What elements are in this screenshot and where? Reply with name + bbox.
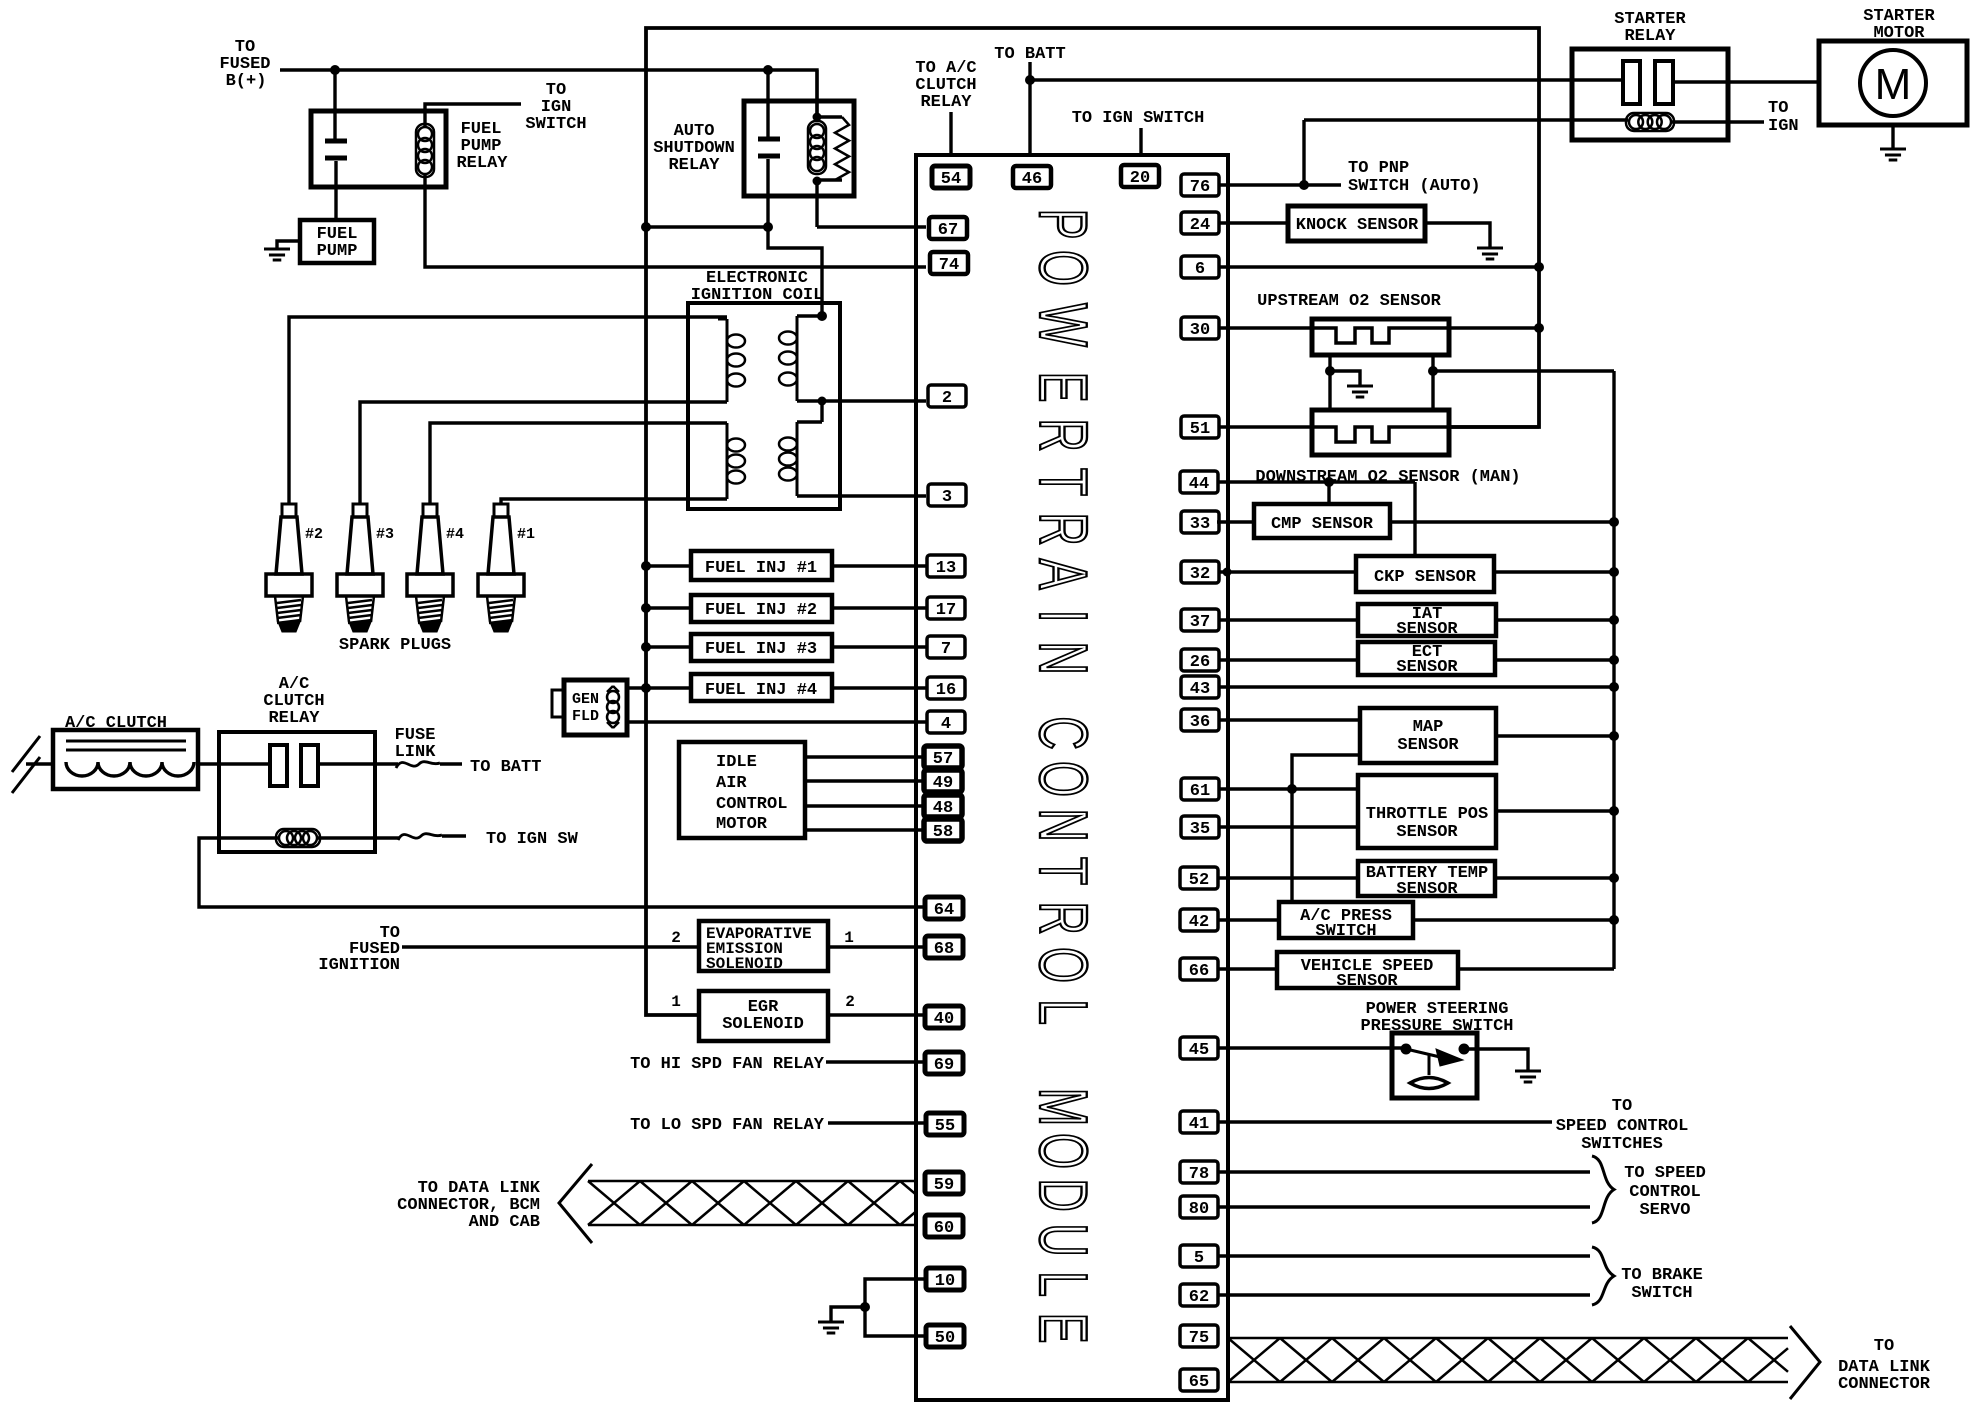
wire ASD loop to FUEL INJ #4 [646,686,691,689]
svg-text:SWITCH: SWITCH [1631,1284,1692,1303]
svg-text:M: M [1025,1088,1101,1127]
label VEHICLE SPEED SENSOR [1301,957,1434,991]
label IDLE AIR CONTROL MOTOR [716,753,787,834]
wire ignition coil to pin 3 [797,494,926,497]
svg-text:40: 40 [934,1010,954,1029]
label IAT SENSOR [1396,605,1458,639]
pin 48 [924,795,962,818]
wire ASD loop to FUEL INJ #3 [646,645,691,648]
svg-text:64: 64 [934,901,954,920]
pin 17 [927,597,965,620]
svg-text:20: 20 [1130,169,1150,188]
pin 57 [924,746,962,769]
junction loop/pin6 wire [1534,262,1544,272]
svg-text:FLD: FLD [572,708,599,725]
label TO A/C CLUTCH RELAY [915,59,976,112]
junction bus/pin43 [1609,682,1619,692]
wire pin 5 to brake switch [1218,1254,1590,1257]
wire TO BATT to pin 46 [1028,62,1031,155]
wire to hi spd fan relay [826,1060,926,1063]
label TO FUSED IGNITION [318,924,400,975]
svg-text:TO HI SPD FAN RELAY: TO HI SPD FAN RELAY [630,1055,825,1074]
label ELECTRONIC IGNITION COIL [691,269,824,305]
junction ASD coil/resistor bottom [813,177,822,186]
wire coil to spark plug #4 [430,423,727,504]
junction O2 ground [1325,366,1335,376]
svg-text:6: 6 [1195,260,1205,279]
svg-text:L: L [1025,999,1101,1025]
pin 52 [1180,867,1218,890]
svg-text:61: 61 [1190,782,1210,801]
label BATTERY TEMP SENSOR [1366,864,1488,899]
starter motor circle [1860,50,1926,116]
ground at starter motor [1880,149,1906,160]
pin 44 [1180,471,1218,494]
label TO BRAKE SWITCH [1621,1266,1703,1303]
wire pin 76 to PNP switch [1218,183,1341,186]
pin 5 [1180,1245,1218,1268]
svg-text:42: 42 [1189,913,1209,932]
wire fuse link to batt [440,762,462,765]
junction ASD-loop/ASD-relay [641,222,651,232]
junction O2 signal [1428,366,1438,376]
svg-text:TO BATT: TO BATT [470,758,541,777]
pin 74 [930,252,968,275]
PCM powertrain control module box [916,155,1228,1400]
label FUSE LINK [395,726,437,762]
svg-text:N: N [1025,808,1101,841]
wire evap solenoid to pin 68 [828,945,926,948]
svg-text:7: 7 [941,640,951,659]
svg-text:10: 10 [935,1272,955,1291]
pin 75 [1180,1325,1218,1348]
label STARTER MOTOR [1863,7,1935,43]
svg-text:AIR: AIR [716,774,747,793]
svg-text:60: 60 [934,1219,954,1238]
wire pin 61 to TPS [1218,787,1358,790]
svg-text:SENSOR: SENSOR [1397,736,1459,755]
wire ASD loop to FUEL INJ #1 [646,564,691,567]
svg-text:51: 51 [1190,420,1210,439]
svg-text:LINK: LINK [395,743,437,762]
svg-text:26: 26 [1190,653,1210,672]
svg-text:FUEL INJ #4: FUEL INJ #4 [705,681,817,700]
wire pin 45 to PS switch [1219,1046,1404,1049]
svg-text:MAP: MAP [1413,718,1444,737]
fuse link squiggle 1 [396,762,440,768]
svg-text:T: T [1025,857,1101,885]
svg-text:R: R [1025,512,1101,545]
A/C clutch box [53,730,198,789]
spark plug #1 [478,504,535,632]
wire secondary1 top to primary feed [797,314,822,317]
svg-text:C: C [1025,716,1101,749]
pin 24 [1181,212,1219,235]
pin 43 [1181,676,1219,699]
junction bus/CKP [1609,567,1619,577]
wire pin 78 to speed control servo [1218,1170,1590,1173]
ground at fuel pump [264,249,290,260]
pin 68 [925,936,963,959]
pin 42 [1180,909,1218,932]
wire EGR solenoid to pin 40 [828,1013,926,1016]
EGR solenoid box [699,991,828,1041]
svg-text:CKP SENSOR: CKP SENSOR [1374,568,1477,587]
label TO IGN SWITCH (fuel pump relay) [525,81,586,134]
pin 54 [932,166,970,189]
electronic ignition coil box [688,303,840,509]
svg-text:24: 24 [1190,216,1210,235]
svg-text:PUMP: PUMP [317,242,358,261]
label MAP SENSOR [1397,718,1459,755]
starter relay contacts [1623,61,1640,104]
svg-text:D: D [1025,1178,1101,1211]
svg-text:52: 52 [1189,871,1209,890]
downstream O2 sensor box [1312,410,1449,455]
wire ASD output loop (left vertical x646, top y28, right vertical x1539) [646,28,1539,1015]
evaporative emission solenoid box [699,921,828,971]
svg-text:78: 78 [1189,1165,1209,1184]
wire FUEL INJ #1 to pin 13 [832,564,926,567]
wire pin 30 to upstream O2 [1218,326,1312,329]
wire TPS to sensor bus [1496,809,1614,812]
label TO DATA LINK CONNECTOR BCM AND CAB [397,1179,541,1232]
svg-text:O: O [1025,761,1101,797]
wire MAP 5V supply leg [1292,755,1360,902]
ground at knock sensor [1477,248,1503,259]
throttle position sensor box [1358,775,1496,848]
pin 6 [1181,256,1219,279]
svg-text:UPSTREAM O2 SENSOR: UPSTREAM O2 SENSOR [1257,292,1441,311]
pin 51 [1181,416,1219,439]
wire fuel pump to ground [277,241,300,249]
pin 64 [925,897,963,920]
svg-text:#1: #1 [517,526,535,543]
CKP sensor box [1356,556,1494,592]
svg-text:O: O [1025,1133,1101,1169]
label TO SPEED CONTROL SWITCHES [1556,1097,1689,1154]
label STARTER RELAY [1614,10,1686,46]
svg-text:TO BATT: TO BATT [994,45,1065,64]
svg-text:N: N [1025,641,1101,674]
svg-text:CONTROL: CONTROL [1629,1183,1700,1202]
pin 13 [927,555,965,578]
wire fuel pump relay coil to ign switch [425,104,521,126]
svg-text:SERVO: SERVO [1639,1201,1690,1220]
wire starter motor to ground [1891,125,1894,149]
svg-text:#2: #2 [305,526,323,543]
pin 3 [928,484,966,507]
svg-text:48: 48 [933,799,953,818]
svg-text:AND CAB: AND CAB [469,1213,540,1232]
pin 80 [1180,1196,1218,1219]
pin 61 [1181,778,1219,801]
wire pin 52 to battery temp sensor [1218,876,1358,879]
junction bus/ECT [1609,655,1619,665]
junction bus/CMP [1609,517,1619,527]
wire pin 66 to VSS [1219,967,1277,970]
capacitor plates in fuel pump relay [325,141,347,158]
wire MAP sensor to sensor bus [1496,734,1614,737]
svg-text:SENSOR: SENSOR [1396,658,1458,677]
svg-text:44: 44 [1189,475,1209,494]
wire VSS to sensor bus end [1458,967,1614,970]
ignition coil primary winding 2 [718,423,745,499]
svg-text:SOLENOID: SOLENOID [722,1015,804,1034]
pin 55 [926,1113,964,1136]
wire pin 6 to ASD loop [1218,265,1539,268]
svg-text:U: U [1025,1223,1101,1256]
knock sensor box [1288,206,1425,241]
svg-text:SENSOR: SENSOR [1396,823,1458,842]
coil of ASD relay [808,121,826,174]
junction ASD-loop/inj4 [641,683,651,693]
wire to lo spd fan relay [828,1121,926,1124]
junction loop/upstream O2 wire [1534,323,1544,333]
wire coil to spark plug #1 [501,499,727,504]
junction ground tie [860,1302,870,1312]
svg-text:CMP SENSOR: CMP SENSOR [1271,515,1374,534]
label TO FUSED B(+) [219,38,270,91]
wire starter coil feed to PNP net [1302,120,1305,185]
svg-text:IGNITION: IGNITION [318,956,400,975]
data link band to BCM/CAB [588,1181,916,1225]
junction bus/acpress [1609,915,1619,925]
svg-text:RELAY: RELAY [1624,27,1676,46]
svg-text:GEN: GEN [572,691,599,708]
wire coil center tap [797,401,822,422]
junction bus/TPS [1609,806,1619,816]
upstream O2 connector profile [1312,328,1449,343]
svg-text:76: 76 [1190,178,1210,197]
svg-text:RELAY: RELAY [920,93,972,112]
svg-text:TO LO SPD FAN RELAY: TO LO SPD FAN RELAY [630,1116,825,1135]
label EVAPORATIVE EMISSION SOLENOID [706,925,812,973]
svg-text:RELAY: RELAY [668,156,720,175]
svg-text:TO IGN SWITCH: TO IGN SWITCH [1072,109,1205,128]
svg-text:2: 2 [942,389,952,408]
svg-text:5: 5 [1194,1249,1204,1268]
ground at PCM pins 10/50 [818,1322,844,1333]
pin 78 [1180,1161,1218,1184]
svg-text:43: 43 [1190,680,1210,699]
wire pin 24 to knock sensor [1218,221,1288,224]
wire IACM to pin 57 [805,755,924,758]
label FUEL PUMP [317,225,358,261]
injector box FUEL INJ #3 [691,634,832,661]
starter relay box [1572,49,1728,140]
pin 45 [1180,1037,1218,1060]
svg-text:80: 80 [1189,1200,1209,1219]
junction pin44/CMP [1324,477,1334,487]
svg-text:THROTTLE POS: THROTTLE POS [1366,805,1488,824]
svg-text:#3: #3 [376,526,394,543]
svg-text:CONTROL: CONTROL [716,795,787,814]
label TO PNP SWITCH (AUTO) [1348,159,1481,196]
svg-text:P: P [1025,209,1101,240]
data link band to connector [1228,1338,1788,1382]
wire pins 10/50 to ground [831,1279,927,1336]
label TO SPEED CONTROL SERVO [1624,1164,1706,1220]
svg-text:55: 55 [935,1117,955,1136]
wire IACM to pin 49 [805,779,924,782]
svg-text:41: 41 [1189,1115,1209,1134]
wire ASD loop to FUEL INJ #2 [646,606,691,609]
relay K2 auto shutdown relay box [744,101,854,196]
junction B(+)/ASD-capacitor [763,65,773,75]
fuel pump box [300,220,374,263]
svg-text:1: 1 [671,993,681,1011]
svg-text:74: 74 [939,256,959,275]
wire pin 33 to CMP sensor [1217,520,1254,523]
pin 69 [925,1052,963,1075]
pin 67 [929,217,967,240]
wire ign switch to pin 20 [1139,128,1142,155]
svg-text:37: 37 [1190,613,1210,632]
svg-text:SPARK PLUGS: SPARK PLUGS [339,636,451,655]
junction supply/pin61 [1287,784,1297,794]
wire downstream O2 to ASD loop [1449,425,1539,428]
label FUEL PUMP RELAY [456,120,508,173]
relay K1 fuel pump relay box [311,111,446,187]
GEN FLD coil [607,686,619,728]
svg-text:M: M [1875,60,1912,109]
wire fused ignition to evap solenoid [402,945,699,948]
svg-text:59: 59 [934,1176,954,1195]
injector box FUEL INJ #4 [691,674,832,701]
brace brake switch [1592,1247,1614,1305]
coil of fuel pump relay [416,124,434,177]
label TO DATA LINK CONNECTOR [1838,1337,1931,1394]
pin 20 [1121,165,1159,188]
wire pin 36 to MAP sensor [1218,718,1360,721]
injector box FUEL INJ #1 [691,551,832,580]
wire A/C press switch to bus [1413,918,1614,921]
wire relay contact to fuse link [318,762,398,765]
label A/C CLUTCH RELAY [263,675,324,728]
junction bus/battemp [1609,873,1619,883]
ignition coil primary winding 1 [718,319,745,402]
PS switch stem [1428,1054,1431,1075]
pin 62 [1180,1284,1218,1307]
wire upstream O2 to ASD loop [1449,326,1539,329]
svg-text:RELAY: RELAY [268,709,320,728]
svg-text:36: 36 [1190,713,1210,732]
pin 4 [927,711,965,734]
svg-text:R: R [1025,901,1101,934]
wire CKP sensor to sensor bus [1494,570,1614,573]
wire relay coil to pin 64 [199,838,926,907]
wire B(+) to fuel pump relay capacitor [333,70,336,141]
junction bus/IAT [1609,615,1619,625]
label THROTTLE POS SENSOR [1366,805,1488,842]
svg-text:30: 30 [1190,321,1210,340]
svg-text:TO: TO [1874,1337,1894,1356]
injector box FUEL INJ #2 [691,595,832,622]
svg-text:RELAY: RELAY [456,154,508,173]
ECT sensor box [1358,642,1495,675]
brace speed control servo [1592,1156,1614,1223]
svg-text:TO PNP: TO PNP [1348,159,1409,178]
wire B(+) into ASD capacitor [766,70,769,139]
pin 46 [1013,166,1051,189]
pin 10 [926,1268,964,1291]
wire GEN FLD to pin 4 [627,720,926,723]
label AUTO SHUTDOWN RELAY [653,122,735,175]
pin 33 [1181,511,1219,534]
svg-text:16: 16 [936,681,956,700]
svg-text:FUEL INJ #2: FUEL INJ #2 [705,601,817,620]
A/C clutch break symbol [12,736,40,793]
wire FUEL INJ #3 to pin 7 [832,645,926,648]
wire pin 32 to CKP sensor [1218,570,1356,573]
wire ign to starter relay coil [1304,118,1628,121]
label GEN FLD [572,691,599,725]
pin 26 [1181,649,1219,672]
junction batt feed [1025,75,1035,85]
svg-text:O: O [1025,250,1101,286]
junction ASD-loop/inj3 [641,642,651,652]
svg-text:#4: #4 [446,526,464,543]
wire ASD relay output to pin 67 [817,181,926,227]
wire A/C clutch stub [26,762,53,765]
pin 65 [1180,1369,1218,1392]
wire fuel pump relay coil to pin 74 [425,175,926,267]
svg-text:FUEL INJ #3: FUEL INJ #3 [705,640,817,659]
wire FUEL INJ #4 to pin 16 [832,686,926,689]
junction ASD-loop/inj2 [641,603,651,613]
svg-text:4: 4 [941,715,951,734]
pin 40 [925,1006,963,1029]
pin 2 [928,385,966,408]
pin 37 [1181,609,1219,632]
svg-text:SWITCH: SWITCH [1315,922,1376,941]
pin 16 [927,677,965,700]
CMP sensor box [1254,504,1390,538]
wire pin 37 to IAT sensor [1218,618,1358,621]
pin 32 [1181,561,1219,584]
svg-text:TO BRAKE: TO BRAKE [1621,1266,1703,1285]
wire pin 62 to brake switch [1218,1293,1590,1296]
wire relay coil right to ign sw [318,836,400,839]
wire O2 sensor signal leg [1433,355,1614,410]
GEN FLD left bracket [552,690,564,717]
svg-text:17: 17 [936,601,956,620]
pin 58 [924,819,962,842]
svg-text:SPEED CONTROL: SPEED CONTROL [1556,1117,1689,1136]
svg-text:35: 35 [1190,820,1210,839]
wire starter relay to starter motor [1673,80,1819,83]
junction pin32 edge [1223,568,1232,577]
wire upstream O2 ground leg [1330,355,1360,410]
wire FUEL INJ #2 to pin 17 [832,606,926,609]
wire ASD capacitor to junction [766,159,769,227]
wire IACM to pin 58 [805,828,924,831]
capacitor plates in ASD relay [758,139,780,156]
idle air control motor box [679,742,805,838]
svg-text:SWITCHES: SWITCHES [1581,1135,1663,1154]
pin 7 [927,636,965,659]
wire starter relay coil to ign [1672,120,1764,123]
svg-text:45: 45 [1189,1041,1209,1060]
wire IACM to pin 48 [805,804,924,807]
upstream O2 sensor box [1312,319,1449,355]
A/C clutch plates [66,741,186,750]
svg-text:IGN: IGN [1768,117,1799,136]
PS switch diaphragm [1410,1078,1448,1089]
wire fuse link 2 [442,834,466,837]
svg-text:1: 1 [844,929,854,947]
